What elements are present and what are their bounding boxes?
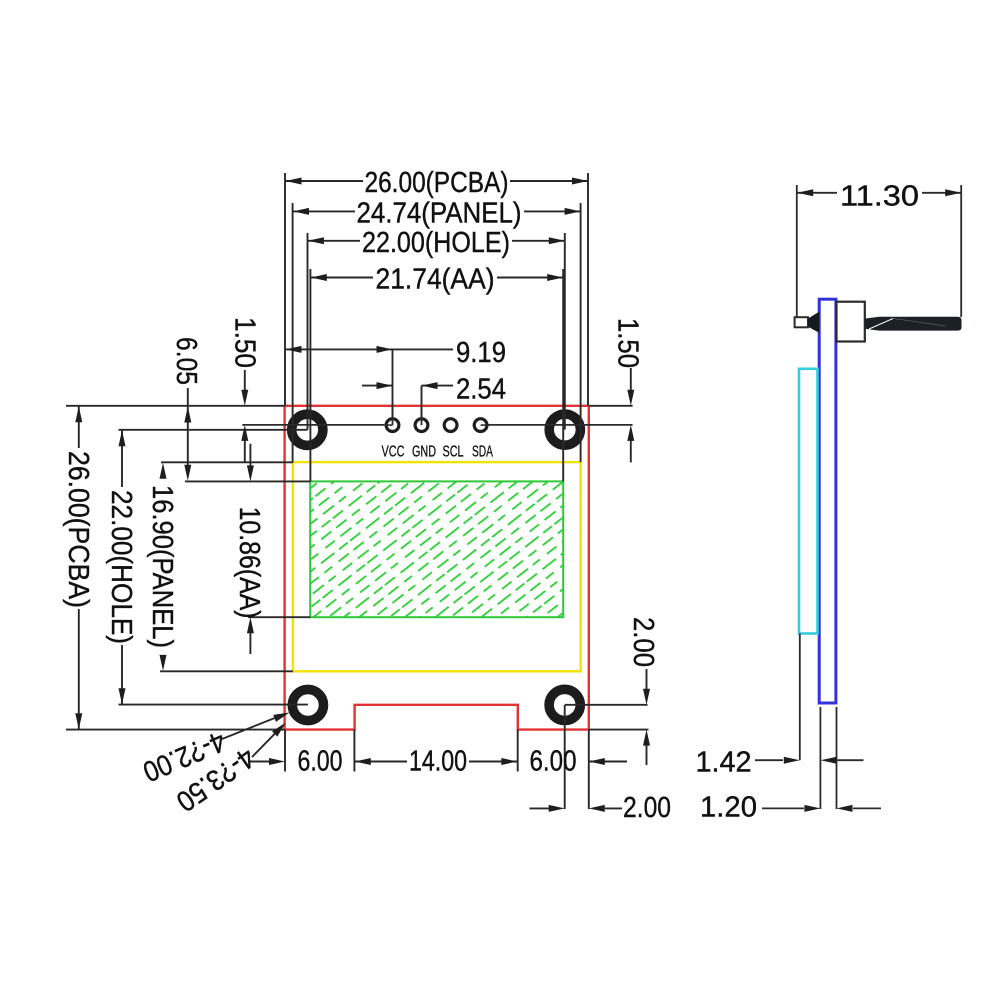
dim 2.00 right vertical <box>646 669 648 691</box>
dim 1.42 tails <box>755 759 783 761</box>
svg-text:1.50: 1.50 <box>229 317 261 368</box>
svg-text:1.42: 1.42 <box>696 747 752 779</box>
arrows 6.00 left bottom <box>269 758 285 765</box>
ext notch left bottom <box>353 730 355 772</box>
arrows 1.42 <box>784 757 800 764</box>
pin hole SDA <box>474 419 487 432</box>
side view pin left taper <box>808 312 819 333</box>
active area (green hatched) <box>310 481 563 617</box>
svg-text:2.00: 2.00 <box>627 617 659 667</box>
svg-text:VCC: VCC <box>382 444 405 461</box>
svg-text:11.30: 11.30 <box>840 181 919 213</box>
bottom hole center line ext left <box>119 704 308 706</box>
ext line panel left top <box>292 203 294 462</box>
side view PCB (blue) <box>819 299 836 703</box>
svg-text:26.00(PCBA): 26.00(PCBA) <box>62 451 94 608</box>
dim line 9.19 <box>285 348 453 350</box>
arrow leader 4-2.00 <box>273 713 289 722</box>
side view pin right <box>865 317 962 331</box>
side ext blue left bottom <box>819 707 821 809</box>
arrows 22.00 left <box>119 430 126 446</box>
svg-text:SDA: SDA <box>472 444 493 461</box>
side view connector body <box>837 302 865 342</box>
pin hole SCL <box>444 419 457 432</box>
dim 1.50 right vertical <box>630 368 632 391</box>
ext line hole right top <box>564 233 566 430</box>
svg-text:14.00: 14.00 <box>409 746 467 778</box>
bottom edge ext left <box>66 729 285 731</box>
side dim 11.30 ext left <box>796 185 798 317</box>
panel outline (yellow) <box>293 462 581 671</box>
leader 4-3.50 <box>252 733 276 757</box>
dim line 22.00(HOLE) top <box>308 240 361 242</box>
svg-text:2.00: 2.00 <box>623 792 671 824</box>
ext line hole left top <box>307 233 309 430</box>
side view pin right highlight <box>869 319 893 330</box>
dim 6.00 left tail <box>249 761 271 763</box>
dim line 24.74(PANEL) top <box>293 210 355 212</box>
top edge ext right <box>589 405 632 407</box>
arrows 26.00 left <box>75 406 82 422</box>
ext pcb right bottom <box>588 730 590 809</box>
pin hole VCC <box>386 419 399 432</box>
ext line pcb left top <box>284 173 286 406</box>
arrows 26.00 top <box>286 178 302 185</box>
arrows 11.30 <box>797 189 813 196</box>
arrows 21.74 top <box>311 274 327 281</box>
top edge ext left <box>66 405 285 407</box>
side ext blue right bottom <box>836 707 838 809</box>
GND stub <box>421 407 423 425</box>
ext line pcb right top <box>587 173 589 406</box>
svg-text:22.00(HOLE): 22.00(HOLE) <box>362 227 510 259</box>
dim 6.05 vertical <box>187 388 189 467</box>
svg-text:1.50: 1.50 <box>612 318 644 368</box>
dim 14.00 line <box>354 761 407 763</box>
side dim 11.30 ext right <box>960 185 962 317</box>
pin hole line right segment <box>489 424 633 426</box>
AA bottom ext left <box>248 616 310 618</box>
ext notch right bottom <box>517 730 519 772</box>
dim 26.00(PCBA) left vertical <box>78 406 80 448</box>
side ext cyan left bottom <box>799 634 801 761</box>
ext line panel right top <box>580 203 582 462</box>
mounting hole TR <box>549 414 580 445</box>
ext line AA left top <box>309 269 311 481</box>
arrows 14.00 bottom <box>355 758 371 765</box>
svg-text:10.86(AA): 10.86(AA) <box>233 507 265 619</box>
dim 6.00 right tail <box>589 761 627 763</box>
svg-text:24.74(PANEL): 24.74(PANEL) <box>357 197 522 229</box>
dim line 2.54 right tail <box>422 385 454 387</box>
arrows 6.05 <box>184 407 191 423</box>
dim 2.00 bottom tails <box>530 807 551 809</box>
arrows 22.00 top <box>308 237 324 244</box>
dim 22.00(HOLE) left vertical <box>121 430 123 487</box>
arrows 10.86 <box>247 465 254 481</box>
AA top ext left <box>185 480 310 482</box>
mounting hole BL <box>292 689 323 720</box>
panel top ext left <box>161 461 293 463</box>
dim 10.86 top tail <box>249 444 251 467</box>
VCC center tick <box>385 424 393 426</box>
arrows 2.00 bottom <box>549 805 565 812</box>
dim line 21.74(AA) top <box>310 277 373 279</box>
side view pin left box <box>795 317 808 327</box>
dim 1.20 tails <box>762 807 804 809</box>
svg-text:6.00: 6.00 <box>530 746 577 778</box>
svg-text:22.00(HOLE): 22.00(HOLE) <box>105 490 137 644</box>
arrows 9.19 <box>286 346 302 353</box>
vcc vertical 9.19 <box>392 349 394 418</box>
arrows 16.90 <box>160 463 167 479</box>
svg-text:16.90(PANEL): 16.90(PANEL) <box>146 485 178 648</box>
svg-text:SCL: SCL <box>443 444 464 461</box>
svg-text:9.19: 9.19 <box>456 337 506 369</box>
hole BR center line right <box>565 704 648 706</box>
ext line AA right top <box>562 269 564 481</box>
svg-text:GND: GND <box>412 444 436 461</box>
mounting hole TL <box>292 414 323 445</box>
gnd vertical 2.54 <box>421 386 423 418</box>
panel bottom ext left <box>160 670 293 672</box>
arrows 2.00 right <box>643 689 650 705</box>
svg-text:21.74(AA): 21.74(AA) <box>376 263 495 295</box>
svg-text:2.54: 2.54 <box>456 373 506 405</box>
svg-text:1.20: 1.20 <box>700 792 757 824</box>
dim line 2.54 left tail <box>362 385 393 387</box>
pin hole line left segment <box>242 424 384 426</box>
dim 10.86 bottom tail <box>249 631 251 654</box>
arrows 2.54 <box>377 382 393 389</box>
svg-text:6.05: 6.05 <box>170 337 202 385</box>
arrows 1.20 <box>804 805 820 812</box>
dim line 26.00(PCBA) top <box>285 180 363 182</box>
side dim 11.30 line <box>797 192 837 194</box>
svg-text:6.00: 6.00 <box>298 746 343 778</box>
bottom edge ext right <box>589 729 649 731</box>
hole center line ext left <box>119 429 308 431</box>
dim 1.50 left vertical <box>244 370 246 391</box>
arrow 6.00 right bottom <box>589 758 605 765</box>
SDA center tick <box>481 424 489 426</box>
mounting hole BR <box>549 689 580 720</box>
side view panel (cyan) <box>799 369 818 634</box>
arrows 1.50 right <box>627 390 634 406</box>
leader 4-2.00 <box>222 718 276 740</box>
svg-text:26.00(PCBA): 26.00(PCBA) <box>365 167 509 199</box>
ext hole BR vertical <box>564 705 566 809</box>
arrows 1.50 left <box>241 390 248 406</box>
pcb outline (red, with bottom notch) <box>285 406 589 730</box>
arrow leader 4-3.50 <box>272 723 286 737</box>
arrows 24.74 top <box>293 208 309 215</box>
pin hole GND <box>415 419 428 432</box>
ext pcb left bottom <box>284 730 286 772</box>
VCC stub <box>392 407 394 425</box>
